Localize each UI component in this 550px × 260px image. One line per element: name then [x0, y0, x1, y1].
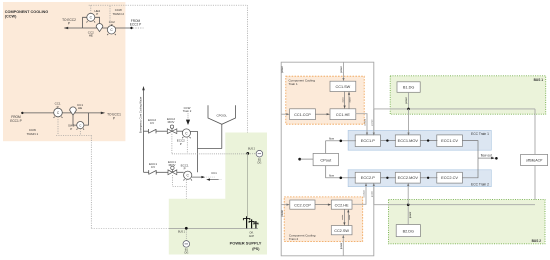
- svg-text:CC2.HE: CC2.HE: [335, 203, 349, 207]
- svg-text:Train 2: Train 2: [183, 109, 192, 113]
- flow out: [478, 157, 493, 159]
- wire pump HE2P to HE2: [95, 17, 100, 24]
- wire ECC2 suction: [190, 132, 197, 173]
- svg-text:ECC1.P: ECC1.P: [361, 138, 375, 143]
- wire main line train1: [22, 112, 53, 114]
- block ECC1.CV: [437, 135, 463, 147]
- pump CC1 P: [54, 108, 63, 118]
- node FROM ECC1 P: [21, 112, 23, 114]
- block offSiteACP: [521, 154, 548, 165]
- svg-text:HE: HE: [89, 34, 93, 38]
- generator B1 DG: [185, 230, 187, 241]
- svg-text:B2.DG: B2.DG: [403, 230, 414, 234]
- tank CPOOL: [208, 105, 236, 124]
- heat exchanger CC1 HE: [70, 107, 77, 115]
- svg-text:CV: CV: [151, 165, 155, 169]
- svg-text:P: P: [184, 167, 186, 171]
- power arrow into CC1.CCP: [281, 113, 288, 115]
- svg-text:BUS 2: BUS 2: [248, 147, 256, 150]
- ECC train 2 box: [348, 170, 491, 187]
- component cooling train 2 box: [284, 197, 363, 242]
- power dash lines train2: [89, 5, 248, 153]
- wire P-MOV row2: [381, 177, 396, 179]
- svg-text:MOV: MOV: [169, 163, 176, 167]
- wire HE1 loop down: [73, 115, 77, 125]
- block CC1.HE: [330, 109, 356, 120]
- wire CPout to row2: [326, 166, 356, 178]
- bus 2 box: [389, 200, 546, 244]
- pump CC2 P: [107, 26, 116, 36]
- bus 1 box: [390, 76, 546, 114]
- svg-text:Train 2: Train 2: [289, 237, 299, 241]
- svg-text:offSiteACP: offSiteACP: [526, 158, 543, 162]
- component cooling train 1 box: [286, 76, 364, 124]
- svg-text:power: power: [370, 119, 373, 125]
- block CC1.CCP: [290, 109, 316, 120]
- power line bus2 to ECC2.MOV: [407, 184, 409, 204]
- svg-text:CPOOL: CPOOL: [216, 113, 227, 117]
- svg-text:DG: DG: [184, 251, 188, 255]
- wire to CPout: [300, 158, 313, 160]
- svg-text:P: P: [96, 12, 98, 16]
- block CPout: [313, 153, 338, 165]
- block ECC2.CV: [437, 172, 463, 183]
- node bus2: [246, 152, 249, 155]
- svg-text:(CCW): (CCW): [5, 14, 17, 18]
- node CP in: [298, 158, 301, 161]
- svg-text:DG: DG: [258, 160, 262, 164]
- wire MOV-CV row2: [420, 177, 437, 179]
- svg-text:water: water: [348, 214, 351, 220]
- water arrows HE-SW: [343, 209, 345, 224]
- cooling line CC1.HE to ECC1.P: [356, 114, 367, 135]
- wire main line train2: [65, 27, 132, 29]
- svg-text:(PS): (PS): [252, 247, 260, 251]
- bus 2 wire: [374, 204, 535, 206]
- svg-text:water: water: [341, 97, 344, 103]
- power dash ECC1 P to bus1: [185, 180, 187, 229]
- svg-text:water: water: [341, 214, 344, 220]
- wire dashed continuation: [133, 27, 144, 29]
- power supply background region: [169, 133, 267, 255]
- svg-text:P: P: [111, 23, 113, 27]
- wire B2.DG to bus2: [407, 205, 409, 225]
- cooling line CC2.HE to ECC2.P: [352, 184, 366, 204]
- svg-text:HE: HE: [78, 106, 82, 110]
- water arrows SW-HE: [344, 92, 346, 108]
- svg-text:P: P: [57, 105, 59, 109]
- power line bus1 to ECC1.MOV: [408, 109, 410, 134]
- wire CPout to row1: [326, 141, 356, 154]
- power dash lines train1: [56, 117, 91, 229]
- svg-text:power: power: [405, 97, 408, 104]
- svg-text:power: power: [340, 66, 343, 73]
- svg-text:power: power: [409, 211, 412, 218]
- svg-text:power: power: [281, 210, 284, 217]
- svg-text:P: P: [180, 142, 182, 146]
- svg-text:CC2.SW: CC2.SW: [334, 229, 349, 233]
- svg-text:P: P: [70, 127, 72, 131]
- block B2.DG: [396, 225, 420, 237]
- bus 1 wire: [374, 108, 535, 110]
- svg-text:power: power: [340, 242, 343, 249]
- valve ECC2 MOV: [167, 129, 172, 134]
- power arrow into CC1.SW: [343, 62, 345, 79]
- svg-text:flow out.: flow out.: [481, 154, 493, 158]
- svg-text:TRAIN 2: TRAIN 2: [113, 12, 125, 16]
- svg-text:coolant: coolant: [363, 190, 366, 197]
- svg-text:CC1.CCP: CC1.CCP: [294, 113, 311, 117]
- wire offsite down: [534, 109, 536, 154]
- svg-text:power: power: [281, 66, 284, 73]
- heat exchanger CC2 HE: [96, 24, 103, 32]
- grid towers: [247, 216, 256, 228]
- svg-text:BUS 2: BUS 2: [532, 239, 542, 243]
- pump ECC1 P: [184, 171, 192, 180]
- arrow to ECC2 P: [64, 27, 68, 30]
- ECC train 1 box: [348, 130, 491, 150]
- pump ECC2 P: [182, 129, 190, 138]
- block CC2.SW: [331, 226, 352, 235]
- wire MOV-CV row1: [420, 140, 437, 142]
- component cooling background region: [3, 2, 125, 141]
- svg-text:MOV: MOV: [168, 120, 175, 124]
- block CC2.HE: [331, 200, 352, 209]
- arrow CCP to HE: [315, 113, 328, 115]
- wire CV out row1: [462, 141, 478, 159]
- block ECC2.P: [355, 172, 380, 183]
- svg-text:POWER SUPPLY: POWER SUPPLY: [230, 241, 262, 246]
- wire ECC2 row: [144, 130, 149, 132]
- wire B1.DG to bus1: [408, 92, 410, 109]
- node bus1: [185, 227, 188, 230]
- svg-text:flow: flow: [329, 173, 335, 177]
- valve ECC1 MOV: [168, 170, 172, 175]
- power dash ECC2 P to bus2: [186, 138, 188, 154]
- node bus1-b1dg: [407, 108, 410, 111]
- svg-text:ECC2 P: ECC2 P: [130, 23, 142, 27]
- check valve ECC1 CV: [149, 170, 157, 174]
- block B1.DG: [397, 82, 420, 93]
- cooling arrows to CC1: [192, 176, 204, 178]
- block ECC2.MOV: [395, 172, 420, 183]
- bus 1 line: [91, 227, 169, 229]
- wire P-MOV row1: [381, 140, 396, 142]
- svg-text:B1.DG: B1.DG: [403, 86, 414, 90]
- svg-text:Emergency Core Cooling Water: Emergency Core Cooling Water: [139, 97, 143, 134]
- pump HE2 P: [87, 13, 96, 22]
- svg-text:ECC2.P: ECC2.P: [361, 175, 375, 180]
- pump SW1 P: [77, 122, 84, 130]
- power loop outline: [281, 62, 374, 256]
- power dash ECC1 MOV: [172, 175, 186, 186]
- svg-text:ECC1.CV: ECC1.CV: [441, 138, 458, 143]
- svg-text:COMPONENT COOLING: COMPONENT COOLING: [5, 10, 48, 14]
- svg-text:CC1.SW: CC1.SW: [336, 85, 351, 89]
- grid line vertical: [246, 153, 248, 217]
- wire CV out row2: [462, 158, 478, 178]
- svg-text:CC1: CC1: [211, 171, 217, 175]
- power arrow into CC2.CCP: [281, 204, 288, 206]
- svg-text:ECC1.MOV: ECC1.MOV: [398, 138, 419, 143]
- svg-text:coolant: coolant: [364, 119, 367, 126]
- svg-text:CC1.HE: CC1.HE: [336, 113, 350, 117]
- svg-text:TRAIN 1: TRAIN 1: [27, 132, 39, 136]
- svg-text:P: P: [68, 22, 70, 26]
- wire ECC1 row: [144, 171, 149, 173]
- svg-text:water: water: [348, 97, 351, 103]
- svg-text:BUS 1: BUS 1: [534, 78, 544, 82]
- svg-text:CPout: CPout: [320, 158, 332, 163]
- svg-text:ACP: ACP: [249, 234, 255, 238]
- block ECC1.MOV: [395, 135, 420, 147]
- svg-text:ECC2.MOV: ECC2.MOV: [398, 175, 419, 180]
- wire SW pump return: [84, 113, 89, 125]
- power arrow into CC2.SW: [342, 236, 344, 256]
- svg-text:BUS 1: BUS 1: [178, 231, 186, 234]
- arrow CCP to HE (train2): [315, 204, 330, 206]
- power line bus1 to ECC1.P: [373, 109, 375, 134]
- check valve ECC2 CV: [149, 129, 157, 133]
- svg-text:ECC2.CV: ECC2.CV: [441, 175, 458, 180]
- power dash ECC2 MOV to bus2: [171, 134, 173, 154]
- wire loop up to pump HE2 P: [83, 17, 87, 28]
- svg-text:CV: CV: [150, 121, 154, 125]
- svg-text:ECC Train 1: ECC Train 1: [471, 132, 489, 136]
- svg-text:ECC Train 2: ECC Train 2: [471, 182, 489, 186]
- wire ECC header: [143, 88, 145, 172]
- svg-text:flow: flow: [329, 136, 335, 140]
- power line bus2 to ECC2.P: [373, 184, 375, 204]
- block ECC1.P: [355, 135, 380, 147]
- svg-text:power: power: [370, 191, 373, 197]
- generator B2 DG: [256, 150, 263, 157]
- svg-text:CC2.CCP: CC2.CCP: [294, 203, 311, 207]
- arrow to ECC1 P: [101, 112, 105, 115]
- block CC2.CCP: [290, 200, 315, 209]
- block CC1.SW: [330, 81, 356, 91]
- svg-text:Train 1: Train 1: [289, 82, 299, 86]
- svg-text:ECC1 P: ECC1 P: [10, 119, 22, 123]
- bus 2 line: [172, 153, 248, 155]
- svg-text:P: P: [113, 116, 115, 120]
- node FROM ECC2 P: [130, 27, 132, 29]
